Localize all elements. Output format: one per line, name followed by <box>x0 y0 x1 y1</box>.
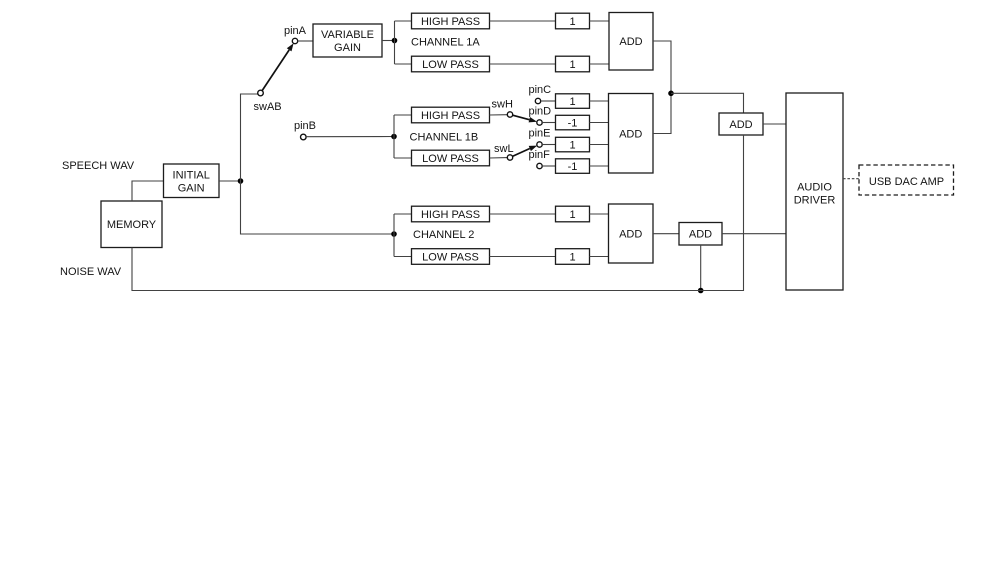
gain -1 (pinF row) <box>556 159 590 174</box>
gain 1 (channel 1A high) <box>556 13 590 29</box>
svg-text:ADD: ADD <box>689 229 712 241</box>
block INITIAL GAIN <box>164 164 220 198</box>
svg-text:swH: swH <box>492 99 513 111</box>
wire ADD small bottom to noise line <box>700 245 702 291</box>
wire pinE to gain <box>542 144 555 146</box>
block MEMORY <box>101 201 162 248</box>
wire gain to ADD 1B (pinD row) <box>590 122 609 124</box>
block ADD right (channel 1 + noise) <box>719 113 763 135</box>
wire LOW PASS 2 to gain <box>490 256 556 258</box>
block HIGH PASS 2 <box>412 206 490 222</box>
node junction channel 1B <box>391 134 397 140</box>
wire junction up to swAB <box>241 94 258 181</box>
gain -1 (pinD row) <box>556 115 590 130</box>
node junction noise line <box>698 288 704 294</box>
wire to LOW PASS 1B <box>394 157 412 159</box>
pin pinE <box>537 142 542 147</box>
wire pinB to channel 1B junction <box>306 136 394 138</box>
svg-text:pinE: pinE <box>529 128 551 140</box>
wire channel 1B branch <box>393 115 395 158</box>
svg-text:VARIABLE: VARIABLE <box>321 29 374 41</box>
svg-text:1: 1 <box>569 140 575 152</box>
svg-text:GAIN: GAIN <box>178 183 205 195</box>
svg-text:GAIN: GAIN <box>334 42 361 54</box>
wire ADD small output to AUDIO DRIVER <box>722 233 786 235</box>
svg-text:1: 1 <box>569 59 575 71</box>
block LOW PASS 1B <box>412 150 490 166</box>
wire gain to ADD 2 (low) <box>590 256 609 258</box>
pin pinD <box>537 120 542 125</box>
gain 1 (channel 2 high) <box>556 206 590 222</box>
wire noise: MEMORY bottom along to ADD right <box>132 135 744 291</box>
wire to LOW PASS 2 <box>394 256 412 258</box>
svg-text:LOW PASS: LOW PASS <box>422 252 479 264</box>
wire pinC to gain <box>541 100 556 102</box>
svg-text:pinC: pinC <box>529 84 552 96</box>
wire junction to ADD right top <box>671 93 744 113</box>
svg-text:1: 1 <box>569 16 575 28</box>
svg-text:HIGH PASS: HIGH PASS <box>421 110 480 122</box>
block HIGH PASS 1B <box>412 107 490 123</box>
svg-text:NOISE WAV: NOISE WAV <box>60 266 122 278</box>
svg-text:ADD: ADD <box>619 229 642 241</box>
block LOW PASS 1A <box>412 56 490 72</box>
wire pinA to VARIABLE GAIN <box>298 40 313 42</box>
wire channel 2 branch vertical <box>393 214 395 257</box>
svg-text:HIGH PASS: HIGH PASS <box>421 209 480 221</box>
pin pinA <box>292 38 297 43</box>
wire gain to ADD 1B (pinE row) <box>590 144 609 146</box>
switch swH terminal <box>507 112 512 117</box>
gain 1 (channel 1A low) <box>556 56 590 72</box>
wire INITIAL GAIN output <box>219 180 241 182</box>
svg-text:pinA: pinA <box>284 25 307 37</box>
wire ADD 2 output <box>653 233 679 235</box>
svg-text:1: 1 <box>569 252 575 264</box>
gain 1 (pinC row) <box>556 94 590 109</box>
svg-text:CHANNEL 1A: CHANNEL 1A <box>411 37 480 49</box>
pin pinC <box>535 98 540 103</box>
svg-text:INITIAL: INITIAL <box>173 169 210 181</box>
wire gain to ADD 1A (high) <box>590 20 610 22</box>
svg-text:1: 1 <box>569 96 575 108</box>
svg-text:ADD: ADD <box>619 36 642 48</box>
block HIGH PASS 1A <box>412 13 490 29</box>
svg-text:pinB: pinB <box>294 120 316 132</box>
wire ADD right output to AUDIO DRIVER <box>763 123 786 125</box>
svg-text:ADD: ADD <box>729 119 752 131</box>
switch swAB terminal <box>258 90 264 96</box>
svg-text:CHANNEL 2: CHANNEL 2 <box>413 229 474 241</box>
block LOW PASS 2 <box>412 249 490 265</box>
pin pinF <box>537 163 542 168</box>
svg-text:-1: -1 <box>568 161 578 173</box>
wire gain to ADD 1B (pinF row) <box>590 165 609 167</box>
svg-text:swAB: swAB <box>254 101 282 113</box>
pin pinB <box>301 134 307 140</box>
wire to LOW PASS 1A <box>395 63 412 65</box>
node junction channel 1A <box>392 38 398 44</box>
switch swH arm with arrowhead to pinD <box>513 115 537 122</box>
svg-text:AUDIO: AUDIO <box>797 181 832 193</box>
svg-text:CHANNEL 1B: CHANNEL 1B <box>410 132 479 144</box>
block ADD 2 <box>609 204 654 263</box>
wire HIGH PASS 1B to swH <box>490 114 508 116</box>
wire channel 2 junction branch <box>391 231 397 237</box>
svg-text:MEMORY: MEMORY <box>107 219 157 231</box>
wire junction down to CHANNEL 2 <box>241 181 395 234</box>
svg-text:-1: -1 <box>568 118 578 130</box>
block ADD 1A <box>609 13 653 71</box>
svg-text:1: 1 <box>569 209 575 221</box>
wire HIGH PASS 2 to gain <box>490 213 556 215</box>
wire LOW PASS 1A to gain <box>490 63 556 65</box>
switch swL terminal <box>507 155 512 160</box>
switch swAB arm with arrowhead to pinA <box>262 43 293 90</box>
block AUDIO DRIVER <box>786 93 843 290</box>
wire LOW PASS 1B to swL <box>490 157 508 159</box>
node junction channel 1 outputs <box>668 91 674 97</box>
node junction after INITIAL GAIN <box>238 178 244 184</box>
wire gain to ADD 1B (pinC row) <box>590 100 609 102</box>
svg-text:USB DAC AMP: USB DAC AMP <box>869 176 944 188</box>
wire gain to ADD 1A (low) <box>590 63 610 65</box>
gain 1 (channel 2 low) <box>556 249 590 265</box>
switch swL arm with arrowhead to pinE <box>512 146 537 157</box>
wire ADD 1B output elbow up <box>653 93 671 133</box>
svg-text:DRIVER: DRIVER <box>794 195 836 207</box>
wire speech: MEMORY top to INITIAL GAIN <box>132 181 164 201</box>
svg-text:LOW PASS: LOW PASS <box>422 59 479 71</box>
wire pinF to gain <box>542 165 555 167</box>
wire to HIGH PASS 1A <box>395 20 412 22</box>
block USB DAC AMP (dashed) <box>859 165 954 195</box>
wire dashed to USB DAC AMP <box>843 178 859 180</box>
svg-text:HIGH PASS: HIGH PASS <box>421 16 480 28</box>
svg-text:pinD: pinD <box>529 106 552 118</box>
wire to HIGH PASS 2 <box>394 213 412 215</box>
wire VARIABLE GAIN output <box>382 40 395 42</box>
block VARIABLE GAIN <box>313 24 382 57</box>
wire channel 1A branch <box>394 21 396 64</box>
gain 1 (pinE row) <box>556 137 590 152</box>
wire gain to ADD 2 (high) <box>590 213 609 215</box>
svg-text:ADD: ADD <box>619 129 642 141</box>
wire HIGH PASS 1A to gain <box>490 20 556 22</box>
block ADD small (channel 2 + noise) <box>679 223 722 246</box>
svg-text:LOW PASS: LOW PASS <box>422 153 479 165</box>
wire pinD to gain <box>542 122 555 124</box>
svg-text:swL: swL <box>494 143 514 155</box>
svg-text:SPEECH WAV: SPEECH WAV <box>62 160 135 172</box>
block ADD 1B <box>609 94 654 174</box>
svg-text:pinF: pinF <box>529 149 551 161</box>
wire ADD 1A output elbow down <box>653 41 671 93</box>
wire to HIGH PASS 1B <box>394 114 412 116</box>
